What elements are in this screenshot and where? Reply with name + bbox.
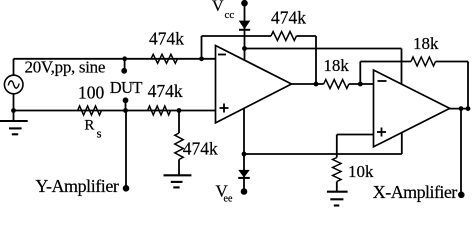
svg-text:DUT: DUT	[110, 78, 143, 97]
svg-text:10k: 10k	[348, 162, 374, 181]
svg-text:ee: ee	[224, 194, 233, 205]
svg-text:474k: 474k	[183, 138, 218, 158]
svg-text:X-Amplifier: X-Amplifier	[373, 182, 457, 202]
svg-text:474k: 474k	[149, 28, 184, 48]
svg-text:18k: 18k	[413, 34, 439, 53]
svg-text:18k: 18k	[323, 56, 349, 75]
svg-text:s: s	[97, 126, 102, 141]
svg-text:100: 100	[78, 82, 105, 102]
svg-text:474k: 474k	[148, 81, 183, 101]
svg-text:20V,pp, sine: 20V,pp, sine	[25, 57, 106, 76]
svg-text:Y-Amplifier: Y-Amplifier	[35, 176, 118, 196]
svg-text:cc: cc	[225, 9, 235, 21]
svg-text:R: R	[84, 118, 94, 134]
svg-text:V: V	[212, 0, 224, 15]
svg-text:474k: 474k	[271, 7, 306, 27]
